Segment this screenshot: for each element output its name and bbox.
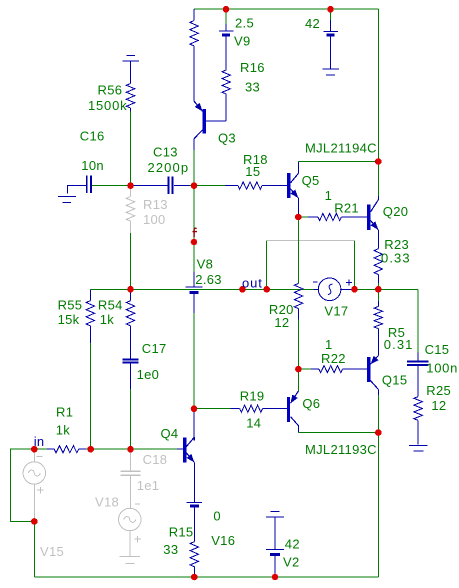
svg-text:V8: V8 bbox=[197, 257, 214, 272]
svg-text:R22: R22 bbox=[321, 351, 346, 366]
svg-text:R25: R25 bbox=[426, 383, 451, 398]
svg-text:15: 15 bbox=[245, 164, 260, 179]
svg-text:R54: R54 bbox=[98, 298, 123, 313]
svg-text:1k: 1k bbox=[56, 423, 71, 438]
svg-text:C18: C18 bbox=[143, 452, 168, 467]
svg-text:R16: R16 bbox=[240, 60, 265, 75]
svg-text:1k: 1k bbox=[100, 312, 115, 327]
svg-text:out: out bbox=[242, 275, 263, 290]
svg-text:V17: V17 bbox=[324, 304, 348, 319]
svg-text:V15: V15 bbox=[40, 544, 64, 559]
svg-text:15k: 15k bbox=[58, 312, 80, 327]
svg-text:R13: R13 bbox=[143, 197, 168, 212]
svg-text:12: 12 bbox=[274, 315, 289, 330]
svg-text:R1: R1 bbox=[56, 405, 73, 420]
svg-text:100n: 100n bbox=[426, 361, 458, 376]
svg-text:Q4: Q4 bbox=[161, 426, 179, 441]
svg-text:V2: V2 bbox=[283, 555, 300, 570]
svg-text:R56: R56 bbox=[98, 83, 123, 98]
svg-text:Q6: Q6 bbox=[302, 396, 320, 411]
svg-text:in: in bbox=[34, 434, 45, 449]
svg-text:0.31: 0.31 bbox=[384, 337, 414, 352]
svg-text:R55: R55 bbox=[58, 298, 83, 313]
svg-text:0: 0 bbox=[213, 509, 221, 524]
svg-text:14: 14 bbox=[246, 416, 261, 431]
svg-text:2200p: 2200p bbox=[148, 160, 190, 175]
svg-text:1: 1 bbox=[325, 188, 333, 203]
svg-text:C17: C17 bbox=[142, 341, 167, 356]
svg-text:MJL21193C: MJL21193C bbox=[305, 442, 377, 457]
svg-text:C13: C13 bbox=[153, 145, 178, 160]
svg-text:12: 12 bbox=[431, 398, 446, 413]
svg-text:R19: R19 bbox=[240, 389, 265, 404]
svg-text:MJL21194C: MJL21194C bbox=[305, 141, 377, 156]
svg-text:V16: V16 bbox=[211, 533, 235, 548]
svg-text:1e1: 1e1 bbox=[137, 478, 160, 493]
svg-text:1e0: 1e0 bbox=[137, 367, 160, 382]
svg-text:Q5: Q5 bbox=[302, 173, 320, 188]
svg-text:1: 1 bbox=[325, 337, 333, 352]
svg-text:10n: 10n bbox=[81, 158, 104, 173]
svg-text:R21: R21 bbox=[334, 201, 359, 216]
svg-text:Q3: Q3 bbox=[218, 131, 236, 146]
svg-text:R15: R15 bbox=[169, 525, 194, 540]
svg-text:2.5: 2.5 bbox=[235, 16, 254, 31]
svg-text:42: 42 bbox=[285, 537, 300, 552]
svg-text:Q20: Q20 bbox=[383, 204, 408, 219]
svg-text:C16: C16 bbox=[80, 129, 105, 144]
svg-text:42: 42 bbox=[305, 16, 320, 31]
svg-text:C15: C15 bbox=[425, 342, 450, 357]
svg-text:33: 33 bbox=[163, 542, 178, 557]
svg-text:2.63: 2.63 bbox=[195, 272, 222, 287]
svg-text:100: 100 bbox=[143, 212, 166, 227]
svg-text:V18: V18 bbox=[95, 495, 119, 510]
svg-text:33: 33 bbox=[245, 80, 260, 95]
svg-text:V9: V9 bbox=[234, 34, 251, 49]
svg-text:0.33: 0.33 bbox=[381, 251, 411, 266]
svg-text:1500k: 1500k bbox=[88, 98, 127, 113]
svg-text:Q15: Q15 bbox=[382, 373, 407, 388]
